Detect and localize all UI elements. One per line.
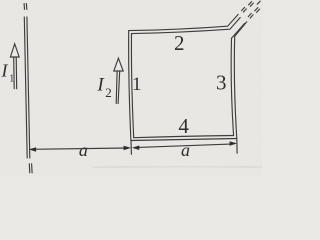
svg-text:1: 1: [132, 74, 142, 95]
dimension extension line below loop left corner: [130, 141, 132, 155]
svg-text:3: 3: [216, 71, 227, 95]
current arrow I2 (open arrow inside loop, left side): [114, 58, 123, 103]
wire: long straight conductor (left), break dashes at top: [24, 4, 27, 10]
dimension line a (wire to loop) with arrowheads: [29, 146, 131, 152]
svg-text:2: 2: [174, 31, 185, 55]
lower lead break dashes (top-right): [248, 8, 259, 19]
upper lead break dashes (top-right): [242, 1, 261, 12]
svg-text:a: a: [79, 140, 88, 160]
loop side 2: top edge (double line) bending into upper lead: [129, 14, 241, 33]
svg-text:a: a: [181, 140, 190, 160]
loop side 1: left edge (double line): [129, 31, 134, 141]
current arrow I1 (open arrow beside left wire): [10, 44, 19, 89]
svg-text:I: I: [1, 60, 9, 80]
dimension extension line below loop right corner: [236, 139, 238, 154]
loop side 3: right edge (double line) bending into lower lead: [231, 22, 247, 139]
wire: long straight conductor (left), break dashes at bottom: [29, 164, 32, 173]
svg-text:2: 2: [105, 85, 112, 100]
paper background: [0, 0, 263, 176]
wire: long straight conductor (left), main double line: [24, 17, 30, 158]
dimension line a (loop width) with arrowheads: [132, 141, 237, 150]
faint scan smudge near bottom: [92, 166, 262, 167]
svg-text:4: 4: [178, 114, 189, 138]
svg-text:1: 1: [9, 74, 14, 85]
loop side 4: bottom edge (double line): [131, 136, 237, 141]
